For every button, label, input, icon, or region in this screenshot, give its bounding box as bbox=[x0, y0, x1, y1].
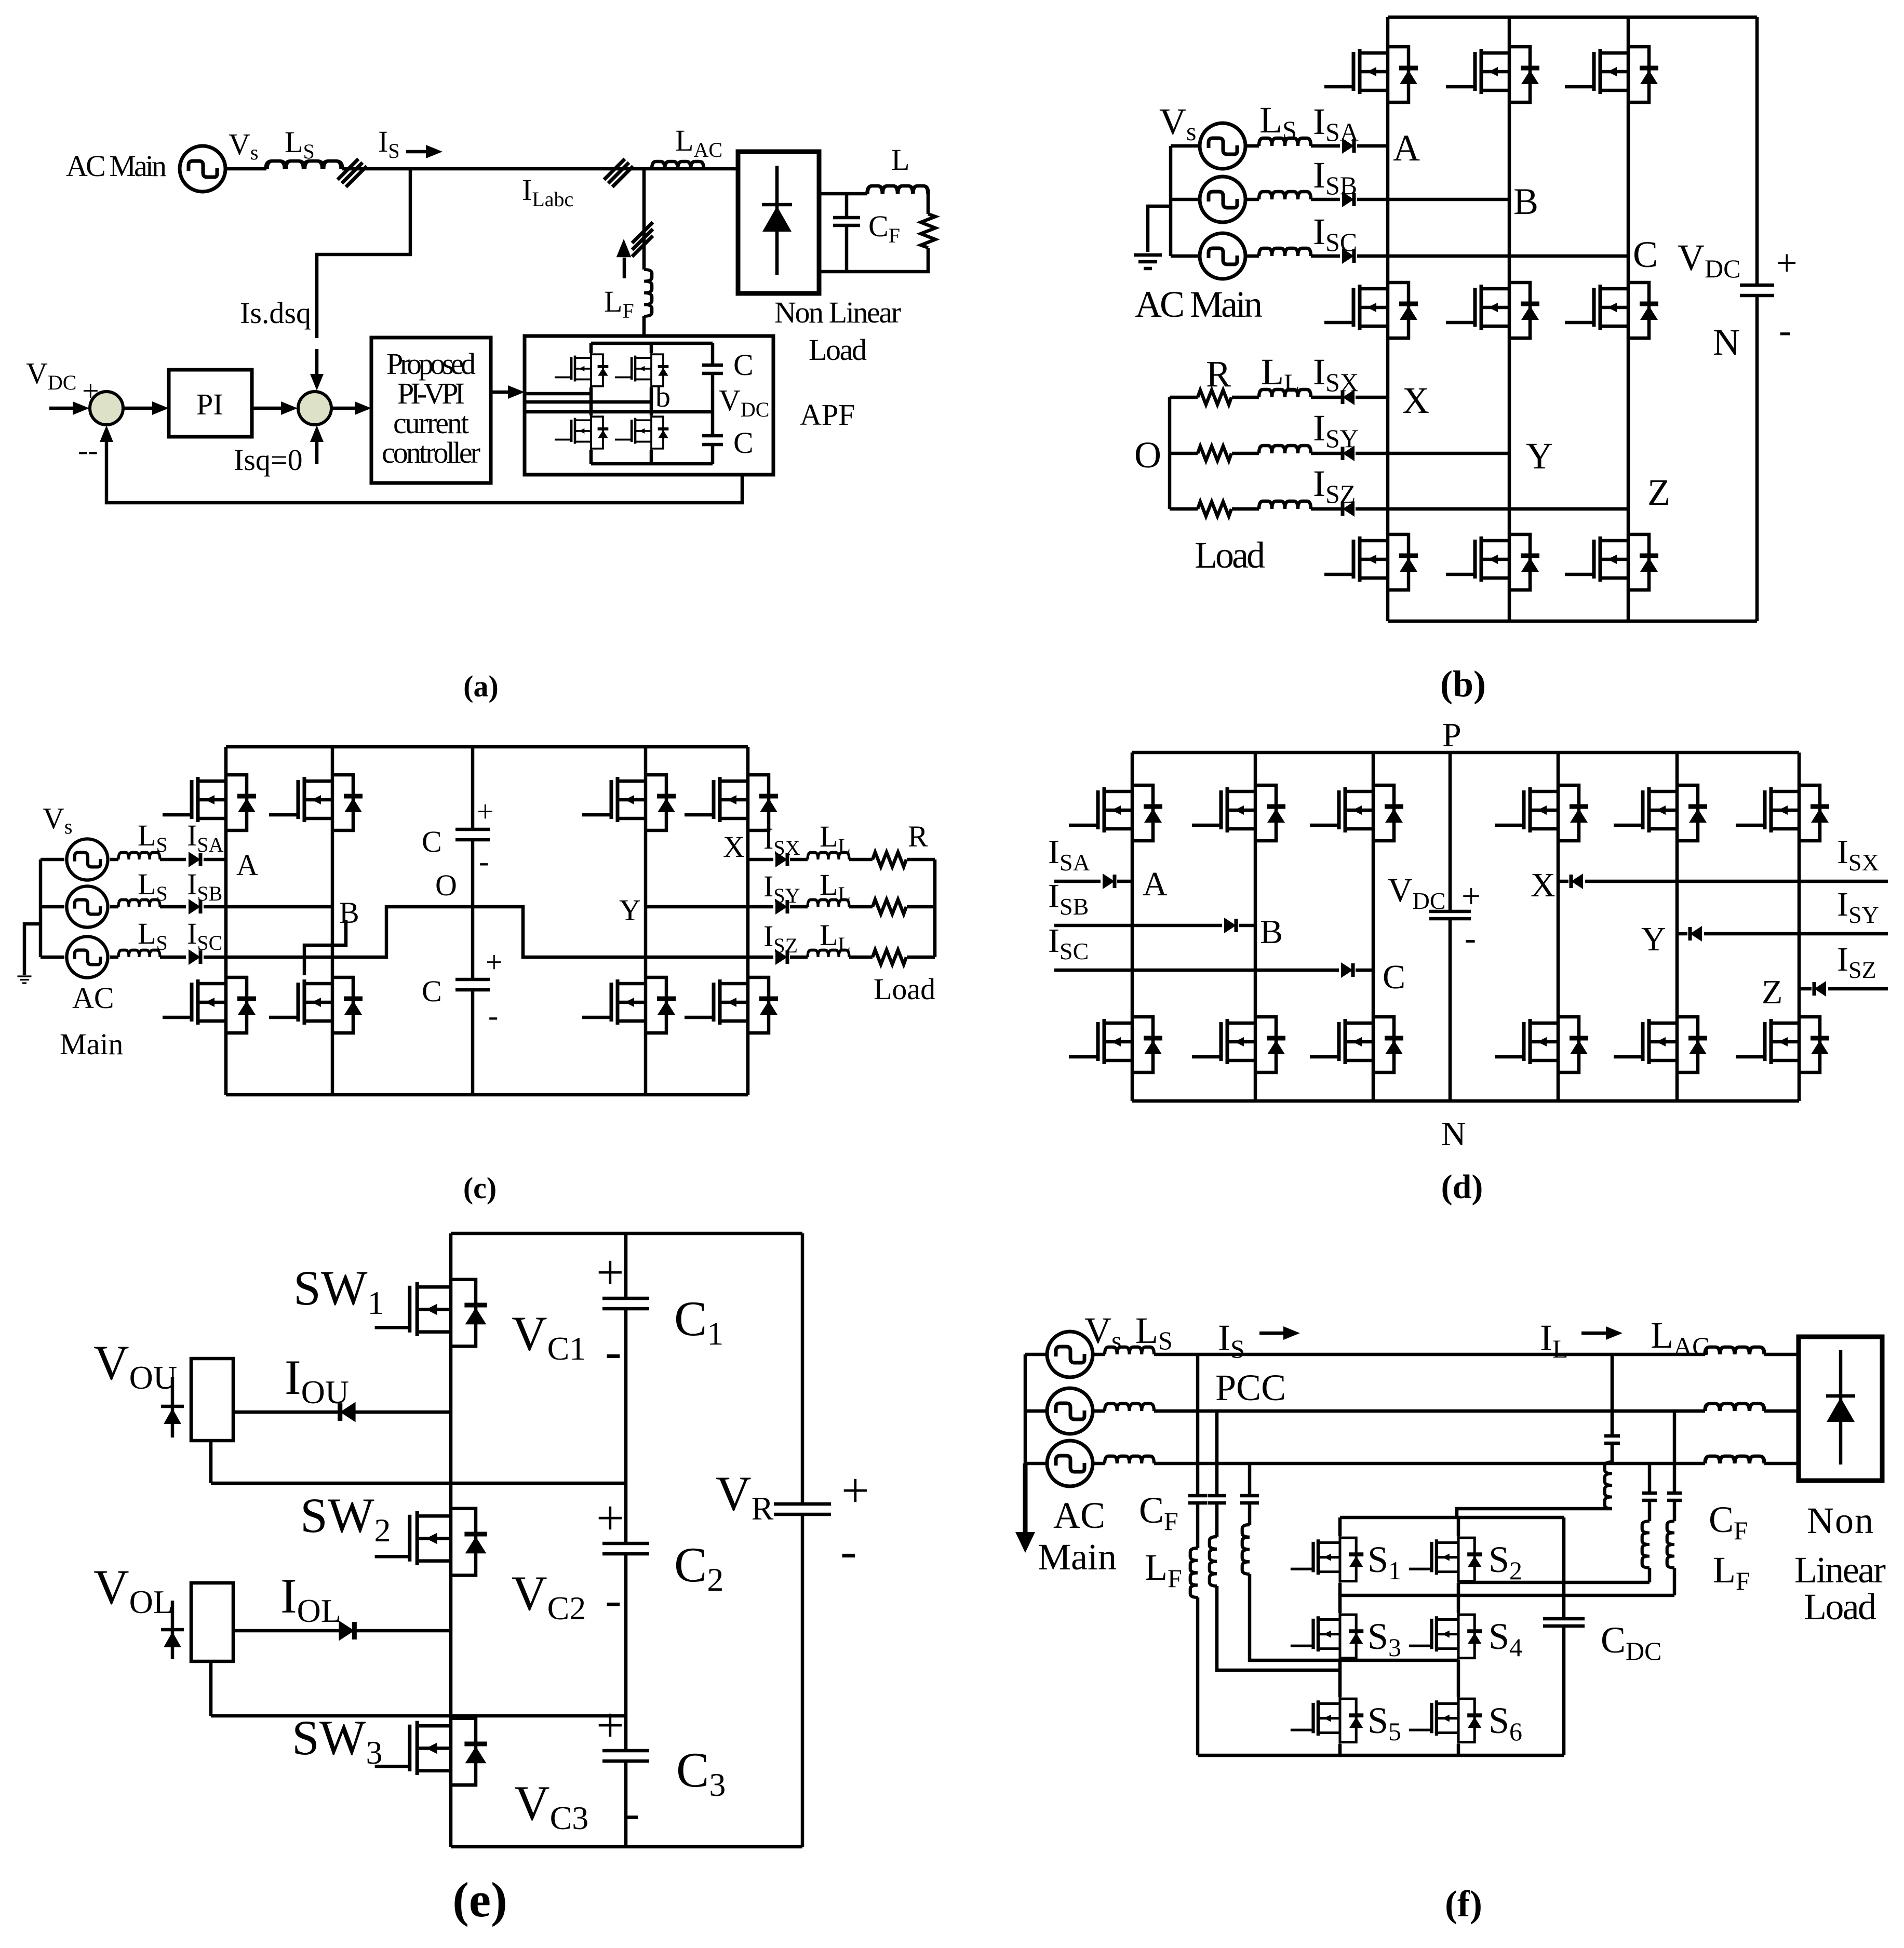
diode ISY bbox=[1343, 446, 1355, 461]
svg-text:A: A bbox=[236, 848, 258, 882]
APF leg wires bbox=[591, 343, 651, 464]
PI box bbox=[169, 370, 252, 437]
svg-text:P: P bbox=[1442, 716, 1461, 754]
inductor LS bbox=[266, 161, 342, 169]
svg-text:AC Main: AC Main bbox=[1135, 284, 1263, 325]
right branch R3 (to top rail) bbox=[1457, 1354, 1612, 1517]
cap CF R1 bbox=[1642, 1493, 1657, 1500]
bottom rail bbox=[226, 1093, 748, 1097]
bottom rail bbox=[451, 1845, 802, 1849]
inductor LS row1 bbox=[1105, 1347, 1154, 1354]
leg B wire bbox=[1508, 17, 1511, 621]
svg-text:PI-VPI: PI-VPI bbox=[397, 377, 465, 410]
arrow sum2 to controller bbox=[332, 407, 360, 410]
transistor leg2672 y1025 bbox=[1324, 532, 1418, 592]
svg-text:(b): (b) bbox=[1440, 663, 1486, 705]
left branch C bbox=[1250, 1463, 1458, 1660]
bridge bottom rail bbox=[1198, 1754, 1564, 1757]
transistor leg2644 y1508 bbox=[1310, 783, 1403, 843]
diode ISB bbox=[189, 899, 200, 915]
phase row3 wire bbox=[1093, 1462, 1799, 1466]
main bus bbox=[449, 1233, 453, 1847]
transistor APF top-right bbox=[615, 353, 668, 387]
diode IOL bbox=[339, 1621, 354, 1641]
svg-text:(f): (f) bbox=[1445, 1883, 1482, 1925]
right rail with VDC cap bbox=[1755, 17, 1759, 621]
slash marks source side bbox=[338, 159, 367, 187]
cap CF A bbox=[1188, 1496, 1207, 1503]
VOU box bottom stub bbox=[209, 1441, 213, 1483]
svg-text:Load: Load bbox=[874, 972, 935, 1006]
diode ISY bbox=[1690, 926, 1702, 942]
AC source A bbox=[1200, 123, 1245, 169]
inductor LS B bbox=[1259, 192, 1311, 199]
diode ISA bbox=[189, 852, 200, 867]
IS arrow bbox=[1259, 1332, 1286, 1335]
transistor leg1440 y1488 bbox=[685, 773, 778, 832]
transistor leg2417 y1508 bbox=[1192, 783, 1285, 843]
top rail bbox=[226, 745, 748, 749]
AC source 1 bbox=[1047, 1332, 1093, 1377]
svg-text:C: C bbox=[422, 825, 442, 858]
leg X wire bbox=[1557, 753, 1560, 1101]
svg-text:+: + bbox=[486, 945, 503, 979]
VOU box bbox=[191, 1359, 233, 1441]
APF branch wire bbox=[642, 169, 646, 336]
inductor LAC row3 bbox=[1705, 1456, 1764, 1463]
svg-text:+: + bbox=[596, 1698, 624, 1753]
inductor L bbox=[867, 186, 928, 194]
resistor R X bbox=[1198, 390, 1231, 405]
Is.dsq arrow into sum2 bbox=[315, 349, 319, 382]
phase B wire bbox=[1245, 198, 1509, 201]
svg-text:A: A bbox=[1393, 127, 1420, 169]
transistor leg435 y1488 bbox=[163, 773, 256, 832]
inductor LF A bbox=[1190, 1548, 1198, 1597]
Non Linear Load box bbox=[1799, 1337, 1882, 1481]
leg A wire bbox=[224, 747, 228, 1095]
diode IOU bbox=[340, 1402, 356, 1422]
diode ISY bbox=[775, 899, 787, 915]
phase row2 wire bbox=[1093, 1409, 1799, 1413]
transistor leg2672 y86 bbox=[1324, 45, 1418, 104]
cap CF R3 bbox=[1604, 1436, 1620, 1443]
svg-text:C: C bbox=[733, 426, 754, 460]
transistor S6 bbox=[1409, 1697, 1482, 1744]
diode ISZ bbox=[1343, 501, 1355, 517]
svg-text:Y: Y bbox=[1641, 920, 1666, 958]
inductor LS C bbox=[118, 950, 160, 958]
cap branch VDC bbox=[1449, 753, 1452, 1101]
resistor R Z bbox=[1198, 502, 1231, 516]
diode in NLL box bbox=[775, 166, 779, 275]
leg C wire bbox=[1372, 753, 1375, 1101]
resistor R X bbox=[873, 852, 906, 867]
right branch R1 (S2/S4 node) bbox=[1458, 1463, 1650, 1582]
inductor LF B bbox=[1210, 1537, 1217, 1586]
inductor LS row3 bbox=[1105, 1456, 1154, 1463]
right leg wire bbox=[1457, 1517, 1460, 1755]
svg-text:-: - bbox=[1779, 310, 1791, 351]
svg-text:Y: Y bbox=[619, 893, 641, 927]
inductor LL Y bbox=[1259, 446, 1311, 453]
svg-text:B: B bbox=[339, 896, 359, 930]
transistor SW3 bbox=[375, 1716, 487, 1788]
APF inner rails bbox=[591, 343, 713, 464]
transistor S5 bbox=[1291, 1697, 1363, 1744]
AC source C bbox=[66, 936, 108, 977]
summing junction 2 bbox=[298, 392, 331, 425]
transistor SW1 bbox=[375, 1277, 487, 1349]
transistor leg2906 y1025 bbox=[1446, 532, 1539, 592]
transistor APF bottom-right bbox=[615, 415, 668, 450]
inductor LS A bbox=[1259, 138, 1311, 146]
load X row bbox=[748, 858, 935, 862]
arrow PI to sum2 bbox=[252, 407, 286, 410]
transistor leg3135 y1025 bbox=[1565, 532, 1658, 592]
svg-text:X: X bbox=[1402, 380, 1429, 421]
inductor LL Z bbox=[1259, 501, 1311, 509]
transistor leg3229 y1508 bbox=[1614, 783, 1707, 843]
transistor leg2644 y1954 bbox=[1310, 1015, 1403, 1074]
arrow Isq up into sum2 bbox=[315, 431, 319, 464]
svg-text:X: X bbox=[723, 830, 745, 864]
transistor leg3000 y1508 bbox=[1495, 783, 1588, 843]
svg-text:Main: Main bbox=[60, 1027, 123, 1061]
leg X wire bbox=[746, 747, 750, 1095]
load right bus bbox=[933, 859, 937, 957]
wire main line bbox=[225, 167, 738, 171]
svg-text:X: X bbox=[1531, 866, 1556, 904]
svg-text:+: + bbox=[841, 1463, 869, 1518]
up arrow beside LF bbox=[623, 258, 626, 278]
left branch B bbox=[1217, 1411, 1340, 1670]
source left bus bbox=[1025, 1354, 1047, 1463]
svg-text:Is.dsq: Is.dsq bbox=[240, 296, 311, 330]
phase A wire bbox=[1054, 880, 1132, 883]
svg-text:-: - bbox=[605, 1324, 622, 1379]
IOU wire bbox=[233, 1410, 451, 1414]
resistor R Y bbox=[1198, 446, 1231, 461]
svg-text:b: b bbox=[655, 380, 671, 413]
diode VOU side bbox=[161, 1377, 184, 1438]
ground bbox=[24, 924, 42, 975]
summing junction 1 bbox=[90, 392, 123, 425]
inductor LL Y bbox=[808, 900, 849, 907]
transistor leg2180 y1508 bbox=[1069, 783, 1162, 843]
transistor S3 bbox=[1291, 1613, 1363, 1660]
AC source B bbox=[1200, 177, 1245, 222]
capacitor CDC bbox=[1543, 1619, 1585, 1626]
diode ISB bbox=[1342, 192, 1354, 207]
capacitor VR bbox=[774, 1504, 831, 1514]
transistor leg640 y1488 bbox=[269, 773, 363, 832]
transistor leg3135 y86 bbox=[1565, 45, 1658, 104]
svg-text:R: R bbox=[908, 819, 928, 853]
svg-text:Main: Main bbox=[1038, 1536, 1117, 1578]
svg-text:O: O bbox=[435, 868, 457, 902]
svg-text:-: - bbox=[479, 844, 489, 878]
phase Z wire bbox=[1799, 987, 1888, 991]
svg-text:C: C bbox=[422, 974, 442, 1008]
svg-text:Linear: Linear bbox=[1794, 1549, 1886, 1591]
transistor leg435 y1878 bbox=[163, 975, 256, 1035]
Non Linear Load box bbox=[738, 152, 819, 293]
capacitor VDC bbox=[1429, 911, 1471, 919]
slash marks APF branch bbox=[632, 222, 653, 257]
diode ISA bbox=[1103, 874, 1115, 889]
diode VOL side bbox=[161, 1601, 184, 1659]
transistor leg2180 y1954 bbox=[1069, 1015, 1162, 1074]
load Y row bbox=[646, 905, 935, 909]
svg-text:Non Linear: Non Linear bbox=[774, 295, 901, 329]
svg-text:Non: Non bbox=[1807, 1500, 1873, 1541]
svg-text:-: - bbox=[1465, 919, 1476, 957]
svg-text:L: L bbox=[891, 143, 909, 177]
leg A wire bbox=[1131, 753, 1134, 1101]
transistor leg3229 y1954 bbox=[1614, 1015, 1707, 1074]
IOL wire bbox=[233, 1629, 451, 1633]
transistor leg2672 y540 bbox=[1324, 280, 1418, 340]
phase C wire bbox=[1054, 969, 1373, 972]
transistor S1 bbox=[1291, 1536, 1363, 1583]
svg-text:O: O bbox=[1134, 434, 1161, 476]
svg-text:+: + bbox=[596, 1245, 624, 1300]
transistor APF top-left bbox=[555, 353, 608, 387]
svg-text:PCC: PCC bbox=[1215, 1367, 1286, 1408]
APF cap branch wire bbox=[711, 343, 715, 464]
APF phase lines bbox=[525, 394, 713, 412]
svg-text:N: N bbox=[1441, 1115, 1466, 1153]
svg-text:+: + bbox=[596, 1490, 624, 1546]
leg B wire bbox=[1254, 753, 1257, 1101]
capacitor C1 bbox=[602, 1298, 649, 1309]
left leg wire bbox=[1338, 1517, 1342, 1755]
leg Y wire bbox=[644, 747, 648, 1095]
transistor APF bottom-left bbox=[555, 415, 608, 450]
phase B wire bbox=[1054, 924, 1255, 928]
NLL right top wire bbox=[819, 192, 867, 196]
transistor leg3464 y1508 bbox=[1736, 783, 1829, 843]
cap branch bbox=[471, 747, 475, 1095]
wire junction down to Is.dsq bbox=[317, 169, 410, 338]
transistor S4 bbox=[1409, 1613, 1482, 1660]
AC source C bbox=[1200, 233, 1245, 279]
svg-text:B: B bbox=[1513, 181, 1538, 222]
svg-text:Load: Load bbox=[1195, 534, 1265, 576]
ground stub bbox=[1148, 206, 1171, 252]
node2 line bbox=[211, 1714, 626, 1718]
top rail P bbox=[1388, 16, 1757, 19]
leg A wire bbox=[1386, 17, 1390, 621]
bottom rail bbox=[1388, 620, 1757, 623]
transistor leg2906 y540 bbox=[1446, 280, 1539, 340]
svg-text:(e): (e) bbox=[452, 1872, 507, 1927]
inductor LF R1 bbox=[1642, 1521, 1650, 1568]
left branch A bbox=[1196, 1354, 1200, 1755]
svg-text:+: + bbox=[1776, 242, 1798, 284]
VOL box bottom stub bbox=[209, 1661, 213, 1716]
IS arrow bbox=[406, 150, 429, 154]
transistor leg2417 y1954 bbox=[1192, 1015, 1285, 1074]
svg-text:(d): (d) bbox=[1441, 1168, 1483, 1206]
svg-text:Y: Y bbox=[1526, 435, 1553, 477]
phase C wire bbox=[1245, 254, 1628, 258]
svg-text:(c): (c) bbox=[463, 1171, 497, 1205]
AC source A bbox=[66, 839, 108, 880]
transistor leg2906 y86 bbox=[1446, 45, 1539, 104]
svg-text:Load: Load bbox=[809, 333, 867, 367]
diode ISX bbox=[1343, 389, 1355, 405]
inductor LS row2 bbox=[1105, 1404, 1154, 1411]
right branch R2 (S1/S3 node) bbox=[1340, 1411, 1674, 1595]
svg-text:APF: APF bbox=[800, 398, 855, 432]
right rail bbox=[801, 1233, 804, 1847]
capacitor C lower bbox=[702, 436, 723, 445]
phase row1 wire bbox=[1093, 1353, 1799, 1356]
node1 line bbox=[211, 1482, 626, 1485]
svg-text:AC: AC bbox=[72, 981, 114, 1015]
transistor leg1440 y1878 bbox=[685, 975, 778, 1035]
ground bbox=[1134, 255, 1162, 268]
diode ISC bbox=[1341, 962, 1353, 978]
svg-text:Proposed: Proposed bbox=[386, 347, 476, 381]
capacitor C3 bbox=[602, 1751, 649, 1761]
svg-text:+: + bbox=[477, 795, 494, 828]
svg-text:-: - bbox=[605, 1572, 622, 1627]
cap CF R2 bbox=[1667, 1493, 1682, 1500]
source left bus bbox=[41, 859, 64, 957]
phase C wire with O bus bbox=[110, 907, 773, 957]
svg-text:PI: PI bbox=[196, 387, 223, 421]
svg-text:AC Main: AC Main bbox=[66, 149, 167, 183]
load X row bbox=[1170, 396, 1388, 399]
diode ISC bbox=[1342, 248, 1354, 264]
svg-text:-: - bbox=[488, 999, 498, 1032]
leg C wire bbox=[1627, 17, 1630, 621]
svg-text:C: C bbox=[733, 348, 754, 382]
APF box bbox=[525, 336, 773, 475]
inductor LL X bbox=[808, 853, 849, 860]
load Z row bbox=[790, 956, 935, 959]
AC source 2 bbox=[1047, 1388, 1093, 1434]
IL arrow bbox=[1581, 1332, 1609, 1335]
inductor LAC bbox=[652, 162, 704, 169]
transistor leg3000 y1954 bbox=[1495, 1015, 1588, 1074]
diode in NLL box bbox=[1826, 1350, 1855, 1465]
load Z row bbox=[1170, 507, 1628, 511]
bottom rail bbox=[1132, 1099, 1799, 1103]
bridge top rail bbox=[1340, 1516, 1564, 1520]
svg-text:--: -- bbox=[78, 433, 98, 467]
top rail bbox=[1132, 751, 1799, 755]
inductor LF C bbox=[1242, 1525, 1250, 1574]
arrow controller to APF bbox=[491, 391, 513, 394]
AC source B bbox=[66, 886, 108, 927]
leg B wire bbox=[331, 747, 334, 1095]
ground arrow bbox=[1015, 1532, 1035, 1553]
svg-text:-: - bbox=[623, 1785, 640, 1840]
transistor leg3135 y540 bbox=[1565, 280, 1658, 340]
feedback wire bbox=[106, 431, 742, 503]
load Y row bbox=[1170, 452, 1509, 455]
slash marks load side bbox=[604, 159, 633, 187]
resistor R Z bbox=[873, 950, 906, 964]
transistor leg640 y1878 bbox=[269, 975, 363, 1035]
phase A wire bbox=[1245, 144, 1388, 148]
AC source Vs bbox=[180, 146, 225, 192]
inductor LL X bbox=[1259, 389, 1311, 397]
transistor SW2 bbox=[375, 1506, 487, 1578]
capacitor C upper bbox=[702, 365, 723, 373]
diode ISX bbox=[1571, 874, 1583, 889]
inductor LS A bbox=[118, 853, 160, 860]
diode ISX bbox=[775, 852, 787, 867]
CF cap branch bbox=[845, 194, 849, 272]
cap CF B bbox=[1208, 1496, 1226, 1503]
diode ISB bbox=[1224, 918, 1236, 933]
resistor R Y bbox=[873, 899, 906, 914]
transistor leg3464 y1954 bbox=[1736, 1015, 1829, 1074]
svg-text:Z: Z bbox=[1647, 472, 1670, 513]
transistor leg1243 y1878 bbox=[582, 975, 676, 1035]
inductor LF R2 bbox=[1667, 1521, 1674, 1568]
AC source 3 bbox=[1047, 1441, 1093, 1486]
phase A wire bbox=[110, 858, 226, 862]
svg-text:Z: Z bbox=[1762, 973, 1782, 1011]
capacitor C2 bbox=[602, 1543, 649, 1554]
CDC branch bbox=[1562, 1517, 1566, 1755]
cap CF C bbox=[1240, 1496, 1259, 1503]
controller box bbox=[371, 338, 491, 483]
arrow sum1 to PI bbox=[124, 407, 157, 410]
phase X wire bbox=[1558, 880, 1888, 883]
leg Y wire bbox=[1675, 753, 1679, 1101]
svg-text:controller: controller bbox=[382, 436, 480, 469]
inductor LS C bbox=[1259, 248, 1311, 256]
svg-text:A: A bbox=[1143, 865, 1168, 903]
svg-text:current: current bbox=[393, 406, 469, 440]
svg-text:-: - bbox=[840, 1523, 857, 1578]
svg-text:Isq=0: Isq=0 bbox=[234, 443, 303, 477]
svg-text:(a): (a) bbox=[463, 669, 499, 703]
phase B wire bbox=[110, 905, 332, 909]
VOL box bbox=[191, 1583, 233, 1661]
svg-text:AC: AC bbox=[1053, 1495, 1105, 1536]
capacitor VDC bbox=[1740, 285, 1774, 295]
diode ISZ bbox=[1814, 981, 1826, 997]
inductor LL Z bbox=[808, 950, 849, 958]
B gate stub bbox=[304, 920, 346, 975]
svg-text:R: R bbox=[1206, 353, 1231, 395]
svg-text:C: C bbox=[1633, 234, 1658, 275]
svg-text:Load: Load bbox=[1804, 1586, 1876, 1628]
resistor R vertical right bbox=[927, 194, 930, 214]
diode ISC bbox=[189, 949, 200, 965]
source left bus bbox=[1171, 146, 1200, 256]
svg-text:B: B bbox=[1260, 913, 1283, 951]
inductor LAC row2 bbox=[1705, 1404, 1764, 1411]
inductor LAC row1 bbox=[1705, 1347, 1764, 1354]
load left bus bbox=[1168, 397, 1172, 509]
svg-text:N: N bbox=[1713, 321, 1740, 363]
top rail bbox=[451, 1232, 802, 1235]
leg Z wire bbox=[1798, 753, 1801, 1101]
diode ISA bbox=[1342, 138, 1354, 154]
cap branch bbox=[624, 1233, 628, 1847]
input arrow VDC bbox=[49, 407, 78, 410]
diode ISZ bbox=[775, 949, 787, 965]
